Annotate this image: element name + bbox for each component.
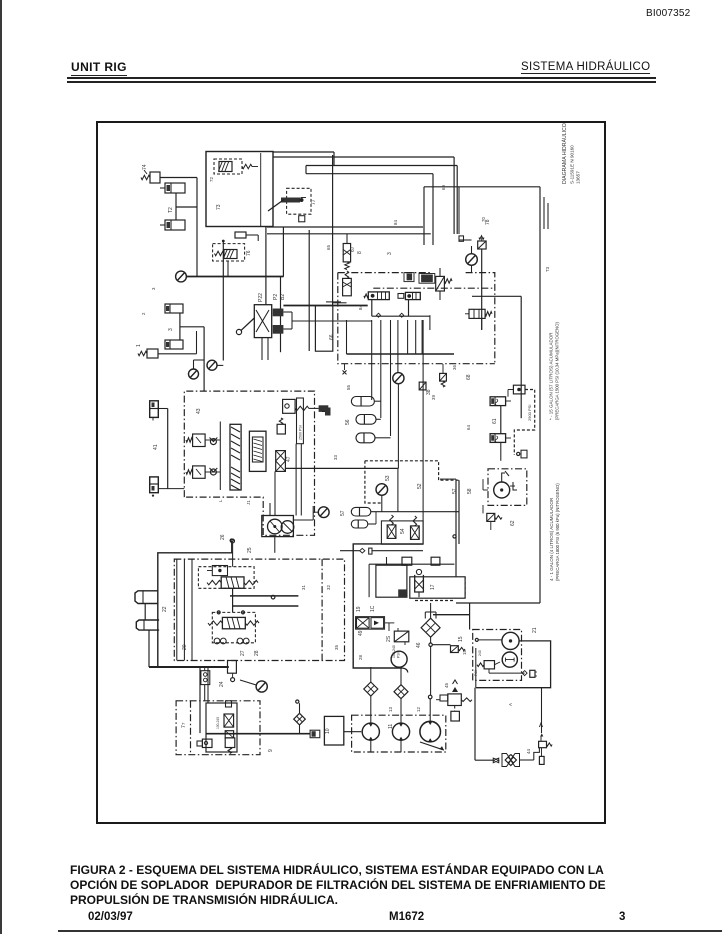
header left: UNIT RIG xyxy=(71,60,127,76)
wire xyxy=(423,187,425,245)
inner tank xyxy=(376,565,407,597)
svg-text:53: 53 xyxy=(385,475,391,481)
svg-text:24: 24 xyxy=(219,681,225,687)
cooler clamp 41b xyxy=(150,477,159,493)
boundary dash-dot xyxy=(338,272,431,274)
valve 19a xyxy=(356,617,385,630)
wire xyxy=(285,467,398,469)
inner housing xyxy=(206,703,237,752)
wire xyxy=(397,469,399,512)
wire xyxy=(371,354,373,400)
wire xyxy=(397,384,399,469)
breather filter xyxy=(502,753,507,765)
orifice 16 xyxy=(451,646,459,653)
wire xyxy=(274,471,276,515)
wire xyxy=(422,320,424,544)
wire xyxy=(160,177,197,179)
wire bus xyxy=(273,151,334,153)
cylinder T2 upper xyxy=(165,183,185,193)
pump 12 xyxy=(362,723,379,740)
block 18 outline xyxy=(353,544,423,668)
pump group dash-dot xyxy=(352,715,446,752)
wire xyxy=(500,406,502,434)
setting plate xyxy=(297,398,304,444)
relief block xyxy=(315,306,332,352)
wire xyxy=(344,731,362,733)
svg-text:DIAGRAMA HIDRÁULICO: DIAGRAMA HIDRÁULICO xyxy=(561,123,568,184)
wire xyxy=(439,268,441,276)
wire xyxy=(283,311,292,313)
svg-text:47: 47 xyxy=(286,456,292,462)
wire xyxy=(458,480,460,544)
wire xyxy=(432,174,434,245)
wire xyxy=(472,295,521,297)
svg-text:1C: 1C xyxy=(370,605,376,612)
union plug xyxy=(312,731,316,737)
svg-text:74: 74 xyxy=(142,164,148,170)
wire xyxy=(283,305,367,307)
wire xyxy=(541,688,543,733)
relief valve 74 xyxy=(150,172,160,183)
accumulator 57b xyxy=(351,520,368,528)
clamp 22a xyxy=(135,591,158,604)
svg-text:52: 52 xyxy=(417,483,423,489)
gauge xyxy=(466,254,478,266)
svg-text:3: 3 xyxy=(151,287,156,290)
wire xyxy=(458,187,460,234)
control box dash-dot xyxy=(174,559,344,660)
svg-text:56: 56 xyxy=(345,419,351,425)
valve 76 xyxy=(213,244,245,261)
block 21 dash-dot xyxy=(473,630,522,681)
svg-text:72: 72 xyxy=(209,177,214,182)
cylinder 2 upper xyxy=(165,304,183,313)
wire pair T3 xyxy=(543,197,545,229)
svg-text:3: 3 xyxy=(168,328,174,331)
accumulator 57a xyxy=(351,507,371,516)
gauge xyxy=(256,681,267,692)
wire xyxy=(269,503,271,516)
cooler clamp 41a xyxy=(150,401,159,418)
wire xyxy=(381,495,383,511)
caption line 1 xyxy=(70,863,670,877)
relief 46 xyxy=(283,399,296,413)
svg-text:41: 41 xyxy=(153,444,159,450)
filter diamond 46 xyxy=(421,618,440,637)
junction box xyxy=(459,236,464,241)
svg-text:26: 26 xyxy=(220,534,226,540)
svg-text:T3: T3 xyxy=(545,266,550,272)
blower pump 14 xyxy=(420,721,441,742)
svg-text:T2: T2 xyxy=(168,207,174,213)
left page edge line xyxy=(0,0,2,934)
footer page number xyxy=(619,911,625,923)
test line dashed xyxy=(514,390,534,456)
svg-text:69: 69 xyxy=(441,185,446,190)
svg-text:54: 54 xyxy=(400,528,406,534)
motor M1 xyxy=(502,632,519,649)
check valve xyxy=(210,469,216,475)
accumulator 56a xyxy=(351,397,374,407)
valve 75 xyxy=(214,159,242,174)
wire riser xyxy=(332,155,334,306)
wire bus xyxy=(347,353,455,355)
svg-text:* - 15 GALON (57 LITROS) ACUMU: * - 15 GALON (57 LITROS) ACUMULADOR xyxy=(549,332,554,420)
pump P1 xyxy=(268,519,283,534)
junction xyxy=(231,539,235,543)
pilot valve xyxy=(212,566,227,576)
svg-text:S-11591E N 90160: S-11591E N 90160 xyxy=(570,145,575,184)
wire xyxy=(442,364,444,373)
pump housing xyxy=(262,516,294,537)
svg-text:43: 43 xyxy=(196,408,202,414)
wire xyxy=(175,193,177,220)
svg-text:57: 57 xyxy=(340,510,346,516)
gauge xyxy=(393,373,404,384)
solenoid 38 xyxy=(419,382,426,390)
muffler xyxy=(451,711,460,721)
outlet loop xyxy=(476,641,551,688)
svg-text:21: 21 xyxy=(532,627,538,633)
accumulator 56c xyxy=(356,433,375,443)
wire xyxy=(144,604,146,621)
svg-text:20: 20 xyxy=(182,644,188,650)
wire xyxy=(430,646,432,695)
svg-text:2: 2 xyxy=(141,312,146,315)
wire xyxy=(474,688,476,761)
pump P2 xyxy=(281,521,294,534)
wire xyxy=(230,595,298,597)
wire xyxy=(469,603,471,630)
accumulator 64 upper xyxy=(490,397,506,406)
svg-text:22: 22 xyxy=(162,606,168,612)
wire xyxy=(292,320,372,322)
gauge xyxy=(318,507,329,518)
footer doc code xyxy=(389,911,424,923)
gauge xyxy=(207,360,217,370)
wire xyxy=(267,226,423,228)
svg-text:27: 27 xyxy=(240,650,246,656)
wire xyxy=(482,505,484,513)
accumulator 56b xyxy=(356,415,376,425)
wire xyxy=(471,265,473,272)
svg-text:76: 76 xyxy=(246,250,252,256)
clamp 22b xyxy=(136,620,159,630)
filter cartridge xyxy=(249,431,266,471)
handle xyxy=(505,471,509,476)
svg-text:84: 84 xyxy=(393,220,398,225)
valve 63 xyxy=(469,309,485,318)
tank 10 xyxy=(324,716,343,745)
svg-text:12: 12 xyxy=(416,707,421,712)
wire bus xyxy=(273,156,454,158)
valve 62 xyxy=(436,276,445,291)
wire xyxy=(179,313,181,341)
svg-text:13657: 13657 xyxy=(576,171,581,184)
wire xyxy=(222,241,224,361)
svg-text:11: 11 xyxy=(388,724,394,729)
filter vessel xyxy=(416,569,421,574)
ball valve xyxy=(202,739,212,747)
drain plug xyxy=(299,216,305,222)
pilot valve 45 xyxy=(277,424,285,434)
wire xyxy=(217,364,223,366)
wire xyxy=(436,699,440,701)
footer rule xyxy=(58,930,722,932)
wire xyxy=(424,186,540,188)
pressure switch xyxy=(224,714,234,727)
junction xyxy=(222,240,225,243)
svg-text:45: 45 xyxy=(444,683,449,688)
svg-text:28: 28 xyxy=(358,655,363,660)
valve 54b xyxy=(411,526,420,540)
svg-text:P2: P2 xyxy=(273,294,279,300)
wire xyxy=(265,226,267,276)
wire xyxy=(471,246,473,254)
svg-text:28: 28 xyxy=(254,650,260,656)
bypass valve 42a xyxy=(193,434,206,447)
relief in 21 xyxy=(484,661,494,669)
wire bus xyxy=(306,173,433,175)
svg-text:100-240: 100-240 xyxy=(392,645,396,658)
svg-text:33: 33 xyxy=(333,455,338,460)
wire bus xyxy=(306,165,457,167)
filter diamond 18b xyxy=(394,685,408,699)
valve block xyxy=(421,275,433,283)
wire xyxy=(372,315,430,317)
steer valve lower xyxy=(212,612,255,642)
relief 45a xyxy=(448,694,462,706)
wire xyxy=(176,559,178,660)
wire xyxy=(430,603,432,618)
wire xyxy=(488,669,490,673)
port cartridge B2 xyxy=(273,309,284,317)
pump circle xyxy=(494,482,510,498)
wire xyxy=(520,759,534,761)
relief 45b xyxy=(539,741,547,747)
wire xyxy=(385,622,395,624)
wire bundle xyxy=(346,320,348,354)
wire xyxy=(148,630,150,667)
svg-text:L: L xyxy=(218,499,223,502)
wire xyxy=(295,444,297,516)
svg-text:73: 73 xyxy=(216,204,222,210)
wire xyxy=(199,667,201,733)
wire xyxy=(369,563,454,565)
solenoid coil xyxy=(225,731,233,738)
svg-text:15: 15 xyxy=(462,650,467,655)
solenoid pair xyxy=(407,274,413,281)
port cartridge B1 xyxy=(273,325,284,334)
svg-text:8: 8 xyxy=(357,251,363,254)
svg-text:57: 57 xyxy=(452,488,458,494)
wire xyxy=(429,315,431,330)
filter diamond 8 xyxy=(294,713,306,725)
valve 66 xyxy=(343,278,352,295)
wire xyxy=(240,680,256,685)
svg-text:2900 PSI: 2900 PSI xyxy=(527,405,532,421)
svg-text:35: 35 xyxy=(334,645,339,650)
cylinder T2 lower xyxy=(165,220,185,230)
svg-text:38: 38 xyxy=(426,389,432,395)
wire xyxy=(219,422,221,491)
anchor X xyxy=(343,370,347,374)
svg-text:7: 7 xyxy=(181,722,186,725)
doc number BI007352 xyxy=(646,8,690,19)
svg-text:PSI: PSI xyxy=(397,652,401,658)
gauge xyxy=(376,484,388,496)
caption line 3 xyxy=(70,893,670,907)
cartridge 47 xyxy=(276,451,286,472)
valve 68 xyxy=(440,373,447,381)
svg-text:25: 25 xyxy=(247,547,253,553)
header double rule xyxy=(67,77,656,79)
relief valve 67 xyxy=(346,234,348,244)
cooler box 43 dash-dot xyxy=(184,391,314,535)
wire xyxy=(232,588,234,612)
cylinder 2 lower xyxy=(165,340,183,349)
check pair b xyxy=(237,638,243,644)
svg-text:(PRECARGA 1800 PSI (6 900 kPa): (PRECARGA 1800 PSI (6 900 kPa) (NITROGEN… xyxy=(555,483,560,581)
inline box b xyxy=(431,557,440,565)
schematic frame xyxy=(96,121,606,824)
boundary dash-dot segment xyxy=(373,287,495,289)
wire xyxy=(432,644,450,646)
svg-text:44: 44 xyxy=(526,749,531,754)
wire xyxy=(433,614,470,616)
pilot cartridge xyxy=(235,232,246,238)
svg-text:66: 66 xyxy=(329,334,335,340)
wire xyxy=(265,277,267,305)
svg-text:2500 PSI: 2500 PSI xyxy=(299,425,303,440)
svg-text:67: 67 xyxy=(350,246,356,252)
svg-text:1: 1 xyxy=(136,344,142,347)
outlet stem xyxy=(228,661,237,674)
svg-text:10: 10 xyxy=(325,728,331,734)
svg-text:3: 3 xyxy=(387,252,393,255)
svg-text:240: 240 xyxy=(478,650,482,656)
inlet plug xyxy=(360,548,365,553)
wire trunk xyxy=(539,187,541,603)
check pair a xyxy=(214,638,220,644)
gauge xyxy=(176,271,187,282)
valve cartridge 84b xyxy=(405,292,420,299)
hand pump box xyxy=(488,469,527,506)
actuator lever xyxy=(241,318,255,331)
svg-text:39: 39 xyxy=(431,395,436,400)
wire xyxy=(313,511,318,513)
valve cartridge 84a xyxy=(368,292,389,300)
svg-text:P22: P22 xyxy=(258,293,264,302)
wire xyxy=(371,300,373,317)
svg-text:15: 15 xyxy=(458,636,464,642)
svg-text:77: 77 xyxy=(311,199,317,205)
svg-text:13: 13 xyxy=(388,707,393,712)
svg-text:2S: 2S xyxy=(386,635,392,642)
valve P22 xyxy=(254,305,271,338)
svg-text:58: 58 xyxy=(467,488,473,494)
svg-text:61: 61 xyxy=(492,418,498,424)
wire xyxy=(158,408,167,410)
wire xyxy=(333,302,347,304)
wire xyxy=(481,249,483,330)
stem xyxy=(261,338,263,360)
svg-text:31: 31 xyxy=(301,585,306,590)
inline valve 6B xyxy=(325,408,331,416)
drain plug xyxy=(530,670,535,677)
wire xyxy=(196,178,198,278)
charging valve xyxy=(513,385,525,394)
valve 29 xyxy=(394,631,409,642)
steer valve upper xyxy=(198,567,254,589)
inline box a xyxy=(402,557,412,565)
filter diamond 18a xyxy=(364,682,378,696)
wire xyxy=(397,354,399,372)
valve 79 xyxy=(478,241,486,249)
relief valve 1 xyxy=(147,349,158,358)
svg-text:64: 64 xyxy=(466,425,471,430)
wire trunk right xyxy=(455,479,457,577)
manifold block 73 xyxy=(206,152,273,227)
wire xyxy=(456,602,540,604)
svg-text:B2: B2 xyxy=(280,294,286,300)
thermo gauge xyxy=(391,651,407,667)
header right: SISTEMA HIDRAULICO xyxy=(521,61,650,74)
svg-text:68: 68 xyxy=(466,374,472,380)
svg-text:36: 36 xyxy=(452,365,457,370)
svg-text:46: 46 xyxy=(416,642,422,648)
svg-text:49: 49 xyxy=(358,630,364,636)
caption line 2 xyxy=(70,878,670,892)
drain valve xyxy=(201,671,210,685)
svg-text:55: 55 xyxy=(346,385,351,390)
svg-text:19: 19 xyxy=(356,606,362,612)
manifold 7 dash-dot xyxy=(176,701,260,755)
wire riser xyxy=(308,230,310,351)
steering housing xyxy=(158,553,233,667)
wire xyxy=(481,318,483,330)
bypass valve 42b xyxy=(193,466,206,478)
wire xyxy=(483,489,488,491)
wire xyxy=(500,442,502,460)
svg-text:62: 62 xyxy=(510,520,516,526)
svg-text:J1: J1 xyxy=(246,500,251,505)
wire xyxy=(227,261,229,277)
svg-text:A: A xyxy=(508,703,513,706)
motor M2 xyxy=(502,652,517,667)
wire xyxy=(206,733,237,735)
footer date xyxy=(88,911,133,923)
svg-text:9: 9 xyxy=(268,749,274,752)
tail pipe xyxy=(539,756,544,764)
svg-text:84: 84 xyxy=(358,305,363,310)
accumulator 64 lower xyxy=(490,434,506,443)
pump 13 xyxy=(392,723,409,740)
valve 54a xyxy=(387,525,396,539)
valve 62b xyxy=(487,513,495,521)
test box dashed xyxy=(365,461,459,480)
spool cartridge xyxy=(230,424,241,490)
wire xyxy=(180,326,204,328)
valve 77 xyxy=(287,188,311,214)
svg-text:4 - 1 GALON (4 LITROS) ACUMULA: 4 - 1 GALON (4 LITROS) ACUMULADOR xyxy=(549,497,554,581)
svg-text:17: 17 xyxy=(430,584,436,590)
svg-text:65: 65 xyxy=(326,245,331,250)
check valve xyxy=(493,758,499,763)
gauge plug xyxy=(517,452,520,455)
valve frame xyxy=(381,521,423,544)
gauge xyxy=(189,369,199,379)
